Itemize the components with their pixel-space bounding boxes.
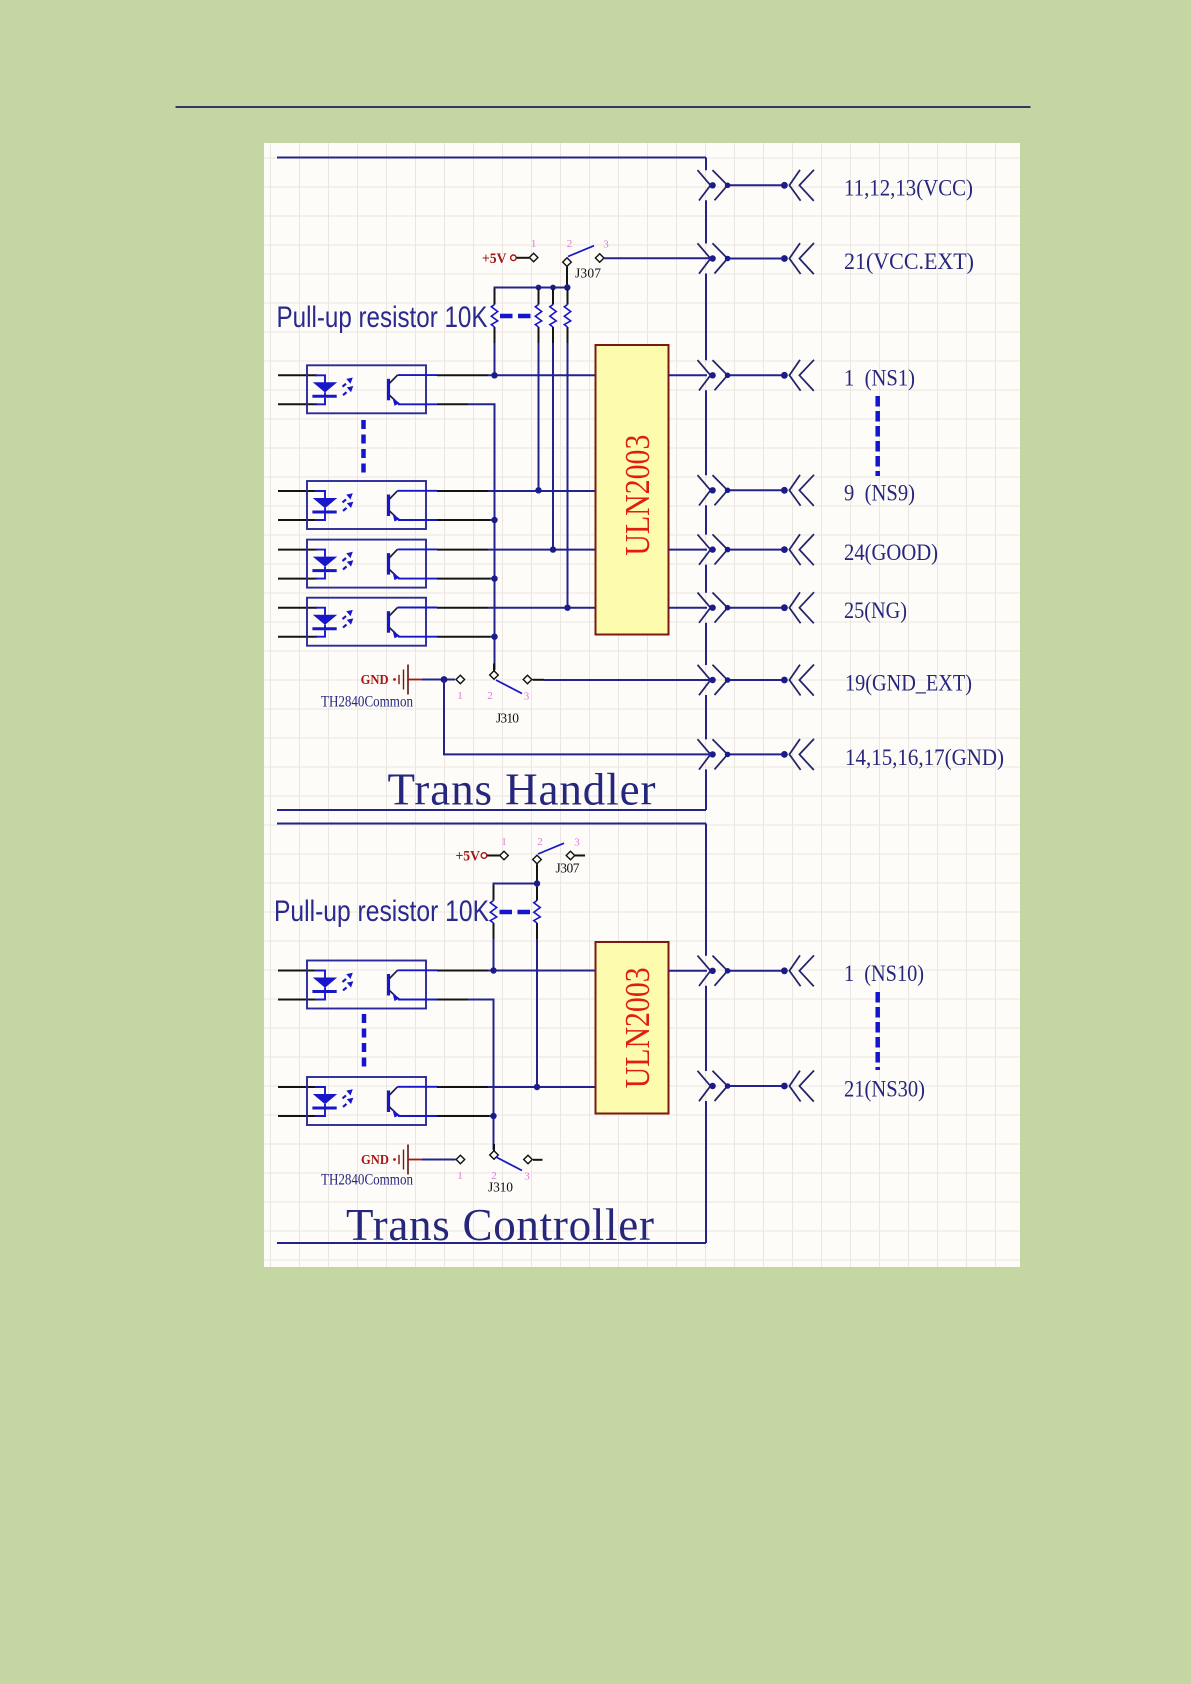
svg-text:Trans Controller: Trans Controller [346,1200,654,1250]
svg-text:2: 2 [537,836,543,848]
svg-text:TH2840Common: TH2840Common [321,1172,413,1189]
svg-text:1: 1 [531,238,537,250]
svg-text:1: 1 [457,690,463,702]
svg-text:11,12,13(VCC): 11,12,13(VCC) [844,176,973,201]
svg-text:14,15,16,17(GND): 14,15,16,17(GND) [845,745,1004,770]
svg-text:+5V: +5V [482,251,507,267]
svg-text:1 (NS1): 1 (NS1) [844,366,915,391]
svg-text:2: 2 [567,238,573,250]
svg-text:2: 2 [487,690,493,702]
svg-text:+5V: +5V [456,849,481,865]
svg-text:J310: J310 [488,1180,513,1195]
svg-text:TH2840Common: TH2840Common [321,694,413,711]
svg-text:Trans Handler: Trans Handler [388,765,656,815]
svg-text:9 (NS9): 9 (NS9) [844,481,915,506]
svg-text:24(GOOD): 24(GOOD) [844,540,938,565]
svg-text:25(NG): 25(NG) [844,598,907,623]
svg-text:3: 3 [524,1171,530,1183]
svg-text:3: 3 [524,691,530,703]
svg-text:J310: J310 [496,711,519,726]
svg-text:1 (NS10): 1 (NS10) [844,961,924,986]
svg-text:J307: J307 [556,861,580,876]
svg-text:GND: GND [361,1152,389,1167]
svg-text:1: 1 [501,836,507,848]
svg-text:Pull-up resistor 10K: Pull-up resistor 10K [274,895,489,928]
svg-text:3: 3 [603,239,609,251]
svg-text:21(VCC.EXT): 21(VCC.EXT) [844,249,974,274]
svg-text:ULN2003: ULN2003 [618,435,657,556]
svg-text:1: 1 [457,1170,463,1182]
svg-text:Pull-up resistor 10K: Pull-up resistor 10K [277,301,488,334]
svg-text:GND: GND [361,672,389,687]
svg-text:ULN2003: ULN2003 [618,967,657,1088]
svg-text:19(GND_EXT): 19(GND_EXT) [845,670,972,695]
svg-text:21(NS30): 21(NS30) [844,1076,925,1101]
svg-text:J307: J307 [575,266,601,281]
svg-text:3: 3 [574,837,580,849]
